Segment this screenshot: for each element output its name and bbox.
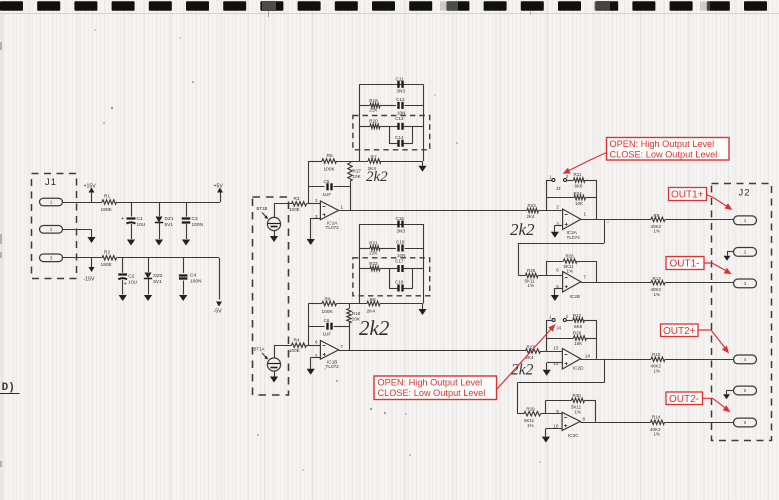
wire R5 to R7 (337, 161, 369, 163)
sensor BT1A (267, 358, 280, 371)
svg-text:10N: 10N (397, 110, 405, 115)
paper specks (94, 29, 609, 471)
red arrow to J2 pin3 (704, 263, 728, 272)
network lower left vertical (359, 224, 361, 304)
wire R10 to J2 pin4 (665, 359, 734, 361)
svg-text:8: 8 (583, 417, 586, 422)
svg-text:1%: 1% (654, 292, 661, 297)
red note box OPEN CLOSE lower (374, 376, 497, 400)
svg-text:100N: 100N (190, 278, 202, 284)
svg-text:1UF: 1UF (323, 192, 332, 197)
wire R23 to IC2A pin2 (539, 210, 563, 212)
svg-text:BT1A: BT1A (254, 347, 265, 352)
svg-text:J4: J4 (556, 325, 561, 330)
svg-text:C12: C12 (396, 97, 405, 102)
svg-text:1%: 1% (654, 229, 661, 234)
svg-text:10U: 10U (128, 279, 137, 285)
feedback capacitor network C11 (360, 84, 424, 86)
wire R29 to IC2C pin9 (541, 413, 563, 415)
network left vertical (359, 84, 361, 161)
connector J1 dashed outline (32, 174, 77, 279)
svg-text:C1: C1 (137, 216, 143, 222)
node pin2 feedback vertical (308, 161, 310, 204)
J2 pin 5 (734, 386, 757, 395)
svg-text:7: 7 (341, 344, 344, 349)
capacitor C6 1UF (308, 326, 324, 328)
svg-text:C3: C3 (192, 216, 198, 222)
J1 pin 1 (40, 198, 63, 206)
wire IC2D output (581, 359, 651, 361)
resistor R17 10K vertical (350, 161, 352, 163)
svg-text:2k2: 2k2 (366, 169, 388, 185)
svg-text:6: 6 (744, 420, 747, 425)
svg-text:10: 10 (553, 424, 559, 429)
connector J2 dashed outline (712, 184, 772, 441)
svg-text:2K4: 2K4 (527, 214, 536, 219)
ground below DZ2 (144, 295, 152, 301)
svg-text:+15V: +15V (84, 184, 97, 190)
svg-text:R7: R7 (371, 154, 377, 160)
svg-text:R24: R24 (574, 191, 583, 196)
parallel bracket C17 C18 (389, 268, 398, 270)
svg-text:100K: 100K (324, 166, 336, 172)
svg-text:13: 13 (553, 345, 559, 350)
parallel bracket C13 C14 (389, 126, 398, 128)
svg-text:OPEN: High Output Level: OPEN: High Output Level (378, 378, 483, 388)
svg-text:2: 2 (50, 227, 53, 232)
svg-text:2: 2 (566, 314, 569, 319)
wire J1 pin2 to ground (63, 229, 92, 231)
svg-text:R2: R2 (104, 250, 110, 256)
resistor R9 40K2 1% (651, 217, 665, 221)
svg-text:R4: R4 (294, 338, 300, 343)
svg-text:R26: R26 (566, 254, 575, 259)
zener diode DZ1 5V1 (159, 202, 161, 216)
feedback right vertical IC2A (596, 180, 598, 219)
resistor R26 5K11 1% (547, 261, 564, 263)
dashed tuning box upper (353, 116, 430, 150)
resistor R27 2K4 (526, 349, 541, 353)
svg-text:TL074: TL074 (567, 235, 581, 240)
svg-text:3N3: 3N3 (397, 229, 406, 234)
ground below C4 (179, 295, 187, 301)
svg-text:12: 12 (553, 361, 559, 366)
svg-text:10K: 10K (575, 201, 583, 206)
feedback right vertical IC2C (595, 400, 597, 422)
row R20 and C13 (360, 126, 371, 128)
svg-text:100E: 100E (289, 207, 300, 212)
J1 pin 2 (40, 226, 63, 234)
op-amp IC1B TL072 (320, 341, 338, 360)
svg-text:3N3: 3N3 (397, 89, 406, 94)
wire J1 pin3 to R2 (63, 257, 103, 259)
red note box OPEN CLOSE upper (607, 138, 730, 161)
wire R3 to IC1A pin2 (307, 203, 321, 205)
svg-text:OUT2-: OUT2- (669, 394, 699, 405)
ground below C3 (182, 240, 190, 246)
svg-text:C5: C5 (324, 179, 330, 184)
svg-text:3: 3 (50, 256, 53, 261)
zener diode DZ2 5V1 (148, 258, 150, 272)
svg-text:1: 1 (341, 205, 344, 210)
jumper J4 (547, 320, 552, 322)
wire IC1B output (339, 350, 526, 352)
resistor R29 5K11 1% (517, 413, 524, 415)
sensor enclosure dashed box (253, 197, 289, 395)
feedback line with R6 100K (308, 303, 322, 305)
svg-text:C13: C13 (395, 116, 404, 121)
svg-text:4: 4 (744, 357, 747, 362)
svg-text:1%: 1% (567, 269, 574, 274)
resistor R7 2K4 (368, 159, 381, 163)
J2 pin 6 (734, 418, 757, 427)
svg-text:J2: J2 (739, 188, 751, 199)
network lower right vertical (423, 224, 425, 304)
capacitor C5 1UF (308, 186, 324, 188)
resistor R1 190E (102, 200, 117, 204)
feedback vertical IC2D (546, 320, 548, 351)
svg-text:2: 2 (744, 250, 747, 255)
svg-text:2k2: 2k2 (510, 220, 535, 239)
resistor R12 6K8 (573, 318, 585, 322)
svg-text:R10: R10 (652, 352, 661, 357)
svg-text:190E: 190E (101, 262, 112, 268)
svg-text:2: 2 (566, 174, 569, 179)
svg-text:J3: J3 (556, 186, 561, 191)
resistor R11 6K8 (574, 178, 586, 182)
J1 pin 3 (40, 254, 63, 262)
svg-text:C4: C4 (190, 273, 196, 279)
svg-text:-5V: -5V (214, 309, 223, 315)
svg-text:2: 2 (556, 204, 559, 209)
IC2A pin3 ground (555, 225, 563, 227)
sensor BT1B (267, 217, 280, 230)
svg-text:1: 1 (549, 315, 552, 320)
svg-text:10K: 10K (353, 174, 362, 179)
+5V supply stub (220, 192, 222, 203)
svg-text:C6: C6 (324, 318, 330, 323)
wire -15V rail (117, 257, 220, 259)
svg-text:6K8: 6K8 (574, 324, 583, 329)
wire IC2A output (581, 219, 651, 221)
svg-text:R1: R1 (104, 194, 110, 200)
wire J1 pin1 to R1 (63, 202, 103, 204)
svg-text:1%: 1% (528, 283, 535, 288)
svg-text:R9: R9 (654, 213, 660, 218)
wire R11 to right vertical (585, 180, 597, 182)
svg-text:+5V: +5V (214, 184, 224, 190)
ground below BT1B (274, 231, 276, 236)
resistor R8 2K4 (367, 301, 380, 305)
svg-text:OPEN: High Output Level: OPEN: High Output Level (610, 139, 715, 149)
svg-text:22K: 22K (369, 108, 378, 113)
svg-text:IC2B: IC2B (570, 294, 580, 299)
svg-text:1UF: 1UF (323, 331, 332, 336)
network right vertical (423, 84, 425, 161)
J2 pin 2 (734, 248, 757, 257)
svg-text:(D): (D) (0, 382, 15, 394)
svg-text:7: 7 (584, 274, 587, 279)
IC1B pin5 ground (311, 357, 321, 359)
resistor R18 10K vertical (349, 304, 351, 309)
svg-text:3: 3 (744, 281, 747, 286)
row R21 22K and C16 10N (360, 248, 371, 250)
op-amp IC2D (562, 349, 580, 370)
svg-text:1%: 1% (575, 409, 582, 414)
red leader arrow to J3 (567, 153, 607, 172)
svg-text:2: 2 (315, 198, 318, 203)
svg-text:R23: R23 (528, 203, 537, 208)
red leader arrow to J4 (497, 329, 552, 390)
ground below BT1A (274, 371, 276, 376)
resistor R25 5K11 1% (519, 275, 526, 277)
svg-text:C17: C17 (395, 258, 404, 263)
svg-text:R29: R29 (526, 407, 535, 412)
IC2C pin10 ground (546, 428, 562, 430)
resistor R23 2K4 (527, 208, 539, 212)
wire R8 to ground node (380, 303, 423, 305)
op-amp IC1A TL072 (320, 201, 338, 220)
svg-text:5V1: 5V1 (165, 222, 174, 228)
svg-text:R17: R17 (353, 169, 362, 174)
IC1A pin3 ground (311, 218, 321, 220)
capacitor C3 100N (186, 202, 188, 217)
film perforation strip (0, 1, 779, 17)
svg-text:9: 9 (556, 409, 559, 414)
parallel cap C18 (397, 285, 399, 292)
wire IC2D output to IC2C input (604, 359, 606, 383)
svg-text:R19: R19 (369, 98, 378, 103)
wire R14 to J2 pin6 (665, 422, 734, 424)
red arrow to J2 pin1 (707, 195, 729, 208)
svg-text:R22: R22 (369, 261, 378, 266)
red label OUT2+ (661, 324, 699, 337)
node pin6 feedback vertical (308, 304, 310, 346)
svg-text:C15: C15 (396, 216, 405, 221)
capacitor C2 10U electrolytic (122, 258, 124, 273)
svg-text:100K: 100K (322, 309, 334, 315)
+15V supply stub (91, 192, 93, 203)
feedback capacitor network C15 (360, 224, 424, 226)
feedback vertical IC2C (545, 400, 547, 413)
wire IC2A output to IC2B input (604, 219, 606, 243)
parallel cap C14 (397, 140, 399, 147)
svg-text:R3: R3 (294, 196, 300, 201)
row R19 22K and C12 10N (360, 105, 371, 107)
-5V supply stub (219, 258, 221, 300)
svg-text:DZ2: DZ2 (153, 273, 162, 279)
svg-text:1%: 1% (654, 369, 661, 374)
resistor R30 5K11 1% (546, 400, 572, 402)
J2 pin 3 (734, 279, 757, 288)
svg-text:TL072: TL072 (326, 225, 340, 230)
op-amp IC2C (562, 412, 580, 430)
svg-text:TL072: TL072 (326, 364, 340, 369)
ground right of R7 (422, 161, 424, 166)
J2 pin 4 (734, 355, 757, 364)
ground at J2 pin5 (727, 390, 734, 392)
svg-text:6: 6 (556, 267, 559, 272)
svg-text:CLOSE: Low Output Level: CLOSE: Low Output Level (378, 388, 486, 398)
svg-text:J1: J1 (45, 177, 57, 188)
wire R9 to J2 pin1 (665, 219, 734, 221)
svg-text:R12: R12 (573, 313, 582, 318)
wire R7 to ground node (381, 161, 423, 163)
red label OUT1+ (669, 188, 707, 201)
svg-text:1%: 1% (527, 423, 534, 428)
wire R27 to IC2D pin13 (541, 351, 563, 353)
svg-text:R6: R6 (325, 297, 331, 303)
J2 pin 1 (734, 216, 757, 225)
svg-text:IC2C: IC2C (568, 433, 579, 438)
svg-text:1: 1 (50, 200, 53, 205)
svg-text:R25: R25 (527, 268, 536, 273)
svg-text:1: 1 (744, 218, 747, 223)
svg-text:100N: 100N (192, 222, 204, 228)
row R22 and C17 (360, 268, 371, 270)
resistor R4 100E (292, 343, 307, 347)
svg-text:IC2D: IC2D (573, 365, 584, 370)
svg-text:R13: R13 (653, 276, 662, 281)
svg-text:190E: 190E (101, 207, 112, 213)
svg-text:C16: C16 (396, 239, 405, 244)
ground at J1 pin2 (87, 237, 95, 243)
wire BT1B to R3 (274, 204, 276, 218)
op-amp IC2B (563, 272, 581, 293)
left edge scan band (2, 14, 4, 500)
svg-text:C18: C18 (395, 280, 404, 285)
ground below C2 (119, 295, 127, 301)
red label OUT2- (666, 392, 703, 405)
svg-text:C11: C11 (396, 77, 405, 82)
ground right of R8 (422, 304, 424, 310)
-15V supply stub (91, 258, 93, 267)
svg-text:R8: R8 (370, 297, 376, 303)
svg-text:5V1: 5V1 (153, 279, 162, 285)
ground at J2 pin2 (727, 251, 734, 253)
dashed tuning box lower (353, 258, 430, 296)
wire IC1A output (339, 210, 527, 212)
svg-text:R20: R20 (369, 119, 378, 124)
jumper J3 (547, 180, 552, 182)
svg-text:14: 14 (585, 353, 591, 358)
feedback right vertical IC2D (596, 320, 598, 359)
svg-text:+: + (121, 216, 124, 222)
wire R12 to right vertical (585, 320, 597, 322)
svg-text:OUT1+: OUT1+ (671, 190, 704, 201)
wire BT1A to R4 (274, 345, 276, 358)
wire R6 to R8 (337, 303, 368, 305)
svg-text:C14: C14 (395, 135, 404, 140)
svg-text:C2: C2 (128, 274, 134, 280)
svg-text:+: + (124, 282, 127, 288)
capacitor C4 100N (183, 258, 185, 273)
wire R25 to IC2B pin6 (538, 275, 563, 277)
feedback right vertical IC2B (596, 261, 598, 282)
svg-text:R21: R21 (369, 241, 378, 246)
capacitor C1 10U electrolytic (131, 202, 133, 217)
resistor R13 40K2 1% (651, 280, 665, 284)
left margin ticks (0, 42, 2, 467)
svg-text:2k2: 2k2 (359, 316, 390, 340)
resistor R3 100E (292, 202, 307, 206)
svg-text:1: 1 (584, 211, 587, 216)
op-amp IC2A TL074 (563, 209, 581, 230)
svg-text:10K: 10K (574, 341, 582, 346)
svg-text:10U: 10U (137, 222, 146, 228)
svg-text:OUT1-: OUT1- (670, 259, 700, 270)
wire R13 to J2 pin3 (665, 282, 734, 284)
svg-text:R5: R5 (327, 153, 333, 159)
IC2D pin12 ground (547, 362, 563, 364)
svg-text:22K: 22K (369, 250, 378, 255)
ground below C1 (127, 240, 135, 246)
wire R4 to IC1B pin6 (307, 345, 321, 347)
svg-text:5: 5 (744, 388, 747, 393)
svg-text:R11: R11 (574, 172, 582, 177)
svg-text:1%: 1% (654, 432, 661, 437)
red arrow to J2 pin6 (703, 398, 727, 409)
svg-text:6: 6 (315, 340, 318, 345)
resistor R10 40K2 1% (651, 357, 665, 361)
feedback vertical IC2A (546, 180, 548, 211)
svg-text:R30: R30 (573, 393, 582, 398)
svg-text:OUT2+: OUT2+ (663, 326, 696, 337)
svg-text:-15V: -15V (84, 277, 95, 283)
feedback vertical IC2B (546, 261, 548, 276)
svg-text:6K8: 6K8 (575, 183, 584, 188)
svg-text:BT1B: BT1B (257, 206, 268, 211)
red arrow to J2 pin4 (698, 330, 726, 349)
resistor R24 10K (547, 197, 574, 199)
svg-text:R28: R28 (573, 331, 582, 336)
wire IC2B output (581, 282, 651, 284)
IC2B pin5 ground (555, 288, 563, 290)
wire IC2C output (580, 422, 650, 424)
resistor R28 10K (547, 338, 574, 340)
svg-text:CLOSE: Low Output Level: CLOSE: Low Output Level (610, 150, 718, 160)
resistor R2 190E (102, 256, 117, 260)
svg-text:2K4: 2K4 (367, 308, 376, 314)
red label OUT1- (666, 257, 704, 270)
ground below DZ1 (155, 240, 163, 246)
svg-text:R14: R14 (652, 415, 661, 420)
svg-text:100E: 100E (289, 348, 300, 353)
feedback line with R5 100K (308, 161, 322, 163)
wire +15V rail (117, 202, 221, 204)
resistor R14 40K2 1% (651, 420, 665, 424)
svg-text:DZ1: DZ1 (165, 216, 174, 222)
